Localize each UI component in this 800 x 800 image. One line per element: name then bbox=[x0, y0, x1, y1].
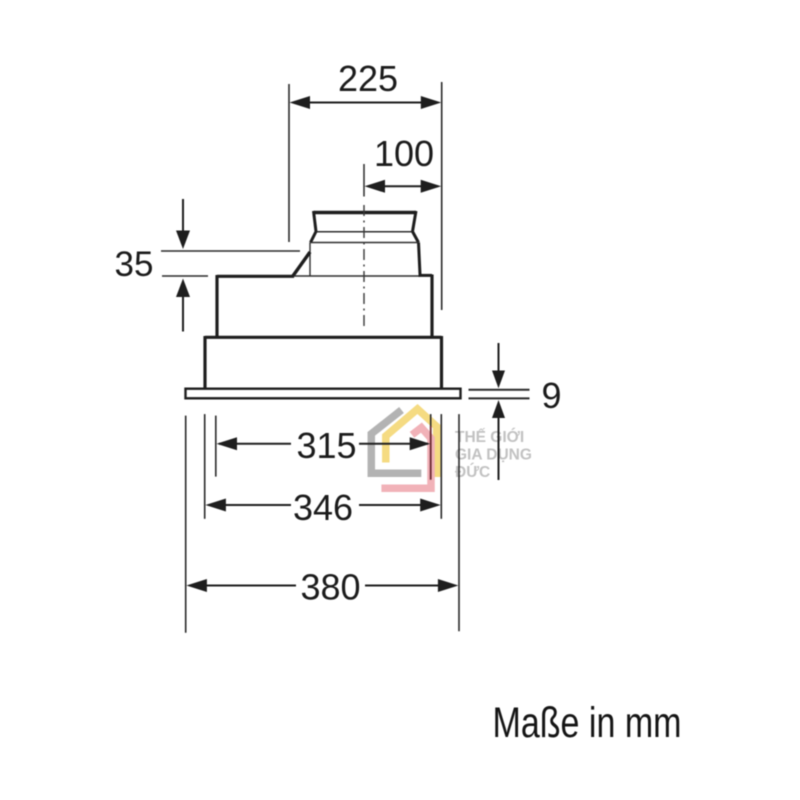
hood slope diagonal bbox=[293, 252, 311, 277]
dim 35 ext line top bbox=[161, 250, 300, 252]
dim 35 up arrow bbox=[176, 279, 190, 332]
bottom flange plate bbox=[186, 389, 461, 399]
dim 380 line with arrows bbox=[186, 579, 458, 592]
centerline solid part bbox=[363, 164, 365, 197]
svg-text:380: 380 bbox=[300, 566, 360, 607]
dim 380 ext line right bbox=[458, 414, 460, 631]
duct flare left bbox=[311, 232, 317, 243]
svg-text:THẾ GIỚI: THẾ GIỚI bbox=[455, 428, 524, 446]
duct collar bottom thin line bbox=[316, 231, 413, 233]
watermark logo house (gray stroke) bbox=[371, 410, 421, 473]
duct collar right side bbox=[413, 211, 417, 232]
dim 9 down arrow bbox=[492, 343, 505, 388]
svg-text:Maße in mm: Maße in mm bbox=[493, 699, 682, 746]
duct flare right bbox=[413, 232, 419, 243]
dim 346 ext line right bbox=[440, 414, 442, 519]
duct flare bottom thin line bbox=[311, 242, 419, 244]
dim 380 ext line left bbox=[185, 416, 187, 633]
upper body right wall bbox=[430, 275, 433, 339]
middle body left wall bbox=[203, 336, 206, 389]
svg-text:GIA DỤNG: GIA DỤNG bbox=[455, 447, 532, 464]
duct right wall bbox=[419, 243, 421, 275]
dim 225 ext line left bbox=[288, 84, 290, 242]
body top thin (behind duct) bbox=[294, 275, 420, 277]
watermark text bbox=[455, 428, 532, 481]
dim 225 ext line right bbox=[441, 82, 443, 310]
duct collar left side bbox=[314, 211, 317, 232]
duct collar top bbox=[314, 211, 417, 215]
svg-text:35: 35 bbox=[115, 245, 154, 284]
middle body top bbox=[205, 336, 442, 339]
dim 9 ext line bottom bbox=[469, 397, 530, 399]
duct left wall hidden thin bbox=[309, 243, 311, 277]
dim 315 line with arrows bbox=[217, 437, 431, 450]
body top right step bbox=[419, 274, 433, 277]
dim 315 ext line right (dark red over pink logo) bbox=[430, 426, 432, 480]
dim 9 ext line top bbox=[469, 389, 530, 391]
svg-text:ĐỨC: ĐỨC bbox=[455, 463, 490, 481]
watermark logo house (yellow stroke) bbox=[386, 409, 437, 477]
dim 315 ext line left bbox=[215, 416, 217, 477]
upper body left wall bbox=[215, 275, 218, 338]
dim 346 line with arrows bbox=[205, 499, 440, 512]
svg-text:346: 346 bbox=[293, 487, 353, 528]
centerline dash-dot bbox=[363, 205, 365, 326]
svg-text:100: 100 bbox=[374, 133, 434, 174]
dim 346 ext line left bbox=[204, 414, 206, 519]
dim 315 ext line right (upper black part) bbox=[430, 414, 432, 426]
body top bold left bbox=[217, 275, 294, 278]
svg-text:315: 315 bbox=[296, 425, 356, 466]
svg-text:225: 225 bbox=[338, 58, 398, 99]
middle body right wall bbox=[440, 336, 443, 389]
dim 9 up arrow bbox=[492, 400, 505, 480]
svg-text:9: 9 bbox=[541, 375, 561, 416]
dim 225 line with arrows bbox=[290, 96, 442, 109]
watermark logo house (pink stroke) bbox=[381, 428, 431, 489]
dim 35 down arrow bbox=[176, 199, 190, 249]
dim 100 line with arrows bbox=[365, 180, 442, 193]
dim 35 ext line bottom bbox=[162, 275, 208, 277]
